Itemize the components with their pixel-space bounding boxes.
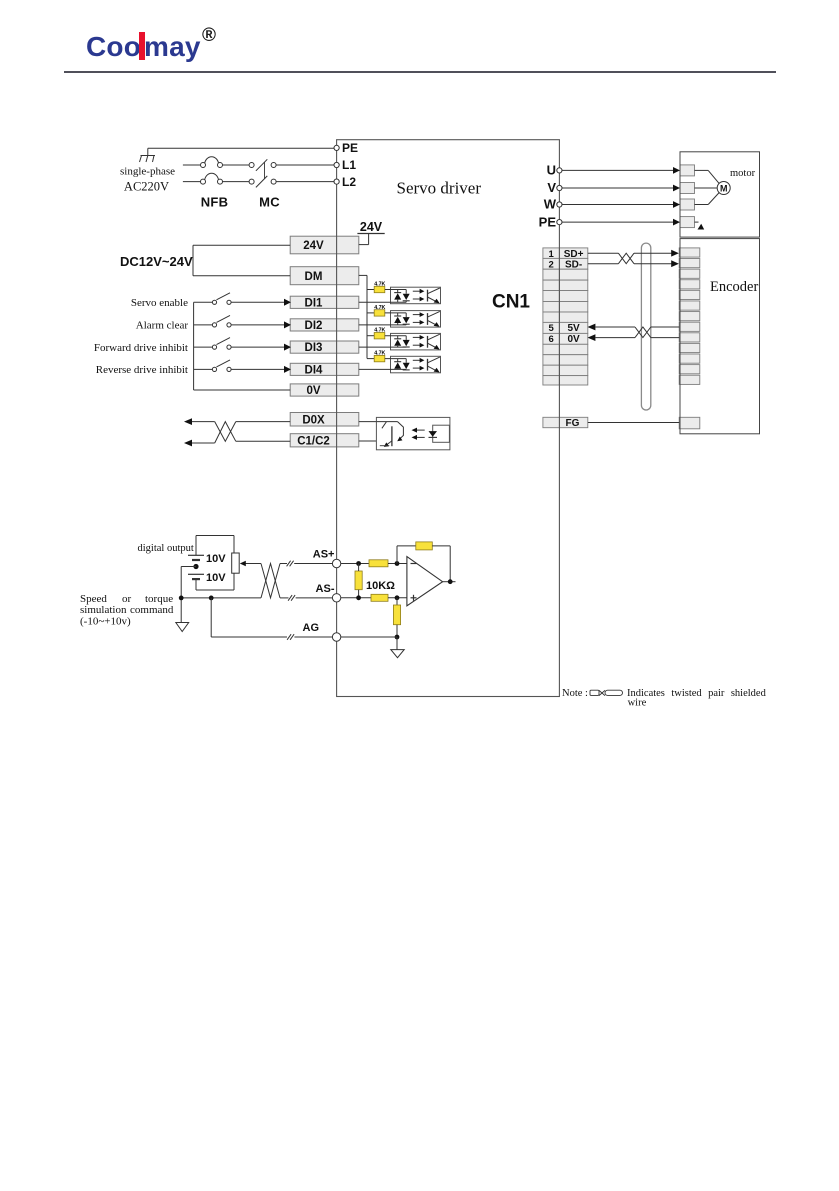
svg-text:DI3: DI3 (305, 342, 323, 354)
svg-text:AS-: AS- (316, 583, 335, 595)
svg-text:MC: MC (259, 195, 280, 210)
svg-text:DC12V~24V: DC12V~24V (120, 254, 193, 269)
svg-text:M: M (720, 184, 728, 194)
svg-text:AG: AG (303, 622, 320, 634)
svg-text:0V: 0V (306, 385, 320, 397)
svg-text:Reverse drive inhibit: Reverse drive inhibit (96, 364, 188, 376)
svg-text:NFB: NFB (201, 195, 229, 210)
svg-text:D0X: D0X (302, 414, 325, 426)
svg-text:2: 2 (549, 260, 554, 271)
svg-text:command: command (130, 604, 174, 616)
svg-text:(-10~+10v): (-10~+10v) (80, 616, 131, 628)
svg-text:Forward drive inhibit: Forward drive inhibit (94, 342, 188, 354)
svg-text:AS+: AS+ (313, 549, 335, 561)
svg-text:24V: 24V (360, 220, 383, 234)
svg-text:simulation: simulation (80, 604, 127, 616)
svg-text:L2: L2 (342, 175, 356, 189)
svg-text:Alarm clear: Alarm clear (136, 320, 189, 332)
svg-text:6: 6 (549, 334, 554, 345)
svg-text:CN1: CN1 (492, 292, 530, 313)
svg-text:1: 1 (549, 249, 555, 260)
svg-text:U: U (547, 163, 556, 178)
svg-text:Encoder: Encoder (710, 279, 758, 295)
svg-text:4.7K: 4.7K (374, 282, 385, 288)
svg-text:wire: wire (628, 698, 647, 709)
svg-text:PE: PE (342, 141, 358, 155)
svg-text:single-phase: single-phase (120, 166, 175, 178)
svg-text:DI4: DI4 (305, 364, 324, 376)
svg-text:AC220V: AC220V (124, 179, 169, 193)
svg-text:Indicates twisted pair shielde: Indicates twisted pair shielded (627, 688, 767, 699)
svg-text:10V: 10V (206, 572, 226, 584)
svg-text:4.7K: 4.7K (374, 305, 385, 311)
svg-text:Servo driver: Servo driver (397, 179, 482, 198)
svg-text:4.7K: 4.7K (374, 328, 385, 334)
svg-text:DI1: DI1 (305, 297, 324, 309)
svg-text:5V: 5V (567, 323, 580, 334)
svg-text:SD+: SD+ (564, 249, 584, 260)
svg-text:FG: FG (566, 418, 580, 429)
svg-text:4.7K: 4.7K (374, 351, 385, 357)
svg-text:0V: 0V (567, 334, 580, 345)
svg-text:V: V (547, 180, 556, 195)
svg-text:digital output: digital output (138, 543, 194, 554)
svg-text:C1/C2: C1/C2 (297, 435, 330, 447)
svg-text:10V: 10V (206, 553, 226, 565)
svg-text:5: 5 (549, 323, 555, 334)
svg-text:motor: motor (730, 168, 756, 179)
svg-text:24V: 24V (303, 240, 324, 252)
svg-text:Note :: Note : (562, 688, 588, 699)
svg-text:PE: PE (539, 214, 557, 229)
svg-text:SD-: SD- (565, 260, 582, 271)
svg-text:10KΩ: 10KΩ (366, 580, 395, 592)
svg-text:Servo enable: Servo enable (131, 297, 188, 309)
svg-text:W: W (544, 197, 557, 212)
svg-text:DI2: DI2 (305, 320, 323, 332)
svg-text:L1: L1 (342, 158, 356, 172)
svg-text:DM: DM (305, 271, 323, 283)
